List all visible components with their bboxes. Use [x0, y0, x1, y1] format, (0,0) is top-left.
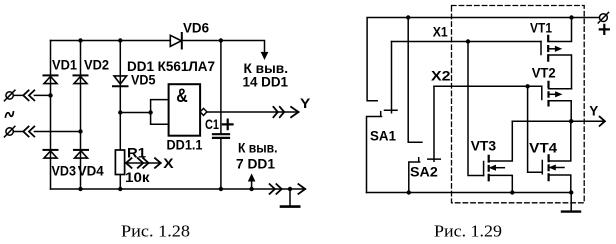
node dot input2/rail2: [78, 129, 82, 133]
svg-text:VD1: VD1: [52, 57, 77, 73]
svg-text:X2: X2: [431, 68, 451, 84]
switch SA1 bottom contact: [367, 112, 382, 193]
node dot SA2 branch/top rail: [406, 15, 410, 19]
svg-text:Рис. 1.29: Рис. 1.29: [434, 222, 502, 241]
top rail wire (+ supply): [367, 18, 599, 101]
transistor VT4: [528, 86, 571, 192]
diode VD2: [74, 75, 88, 83]
gate inversion diamond: [200, 108, 207, 115]
diode VD5: [113, 76, 128, 86]
node dot X1 branch: [466, 39, 470, 43]
ground left circuit: [289, 189, 291, 205]
svg-text:X1: X1: [433, 24, 448, 40]
gate input stubs and bracket: [120, 100, 168, 125]
svg-text:DD1.1: DD1.1: [167, 137, 203, 153]
node dot Y/VT junction: [569, 119, 573, 123]
svg-text:DD1 К561ЛА7: DD1 К561ЛА7: [127, 58, 215, 74]
arrowhead Y right: [600, 117, 605, 126]
node dot VT1 drain/top rail: [569, 15, 573, 19]
switch SA1 blade from X1: [385, 42, 398, 113]
wire Y output right: [512, 120, 605, 122]
wire rail 3: [119, 41, 121, 190]
svg-text:VT4: VT4: [529, 140, 557, 156]
bottom rail wire: [51, 188, 306, 190]
resistor R1: [115, 150, 124, 175]
transistor VT2: [542, 81, 572, 121]
chevrons + arrow bottom rail: [270, 184, 306, 194]
arrow up to pin 7: [251, 181, 253, 189]
svg-text:VD4: VD4: [78, 163, 104, 179]
plus sign C1: [223, 120, 233, 130]
chevrons + arrow Y output: [273, 107, 298, 117]
bottom rail right circuit: [367, 192, 572, 194]
node dot C1 branch/top: [219, 38, 223, 42]
wire Y output: [207, 111, 299, 113]
wire input 1 to rail 1: [14, 94, 51, 96]
svg-text:VT1: VT1: [530, 20, 552, 36]
top rail wire: [51, 41, 265, 54]
wire X1: [392, 41, 542, 43]
svg-text:VT2: VT2: [532, 65, 556, 81]
svg-text:VD2: VD2: [84, 57, 109, 73]
diode VD4: [74, 150, 88, 158]
dashed chip boundary box: [452, 6, 585, 203]
capacitor C1 plates: [213, 133, 229, 135]
svg-text:X: X: [163, 155, 174, 171]
wire X2: [434, 85, 542, 87]
svg-text:К выв.: К выв.: [238, 140, 278, 156]
wire input 2 to rail 2: [14, 131, 81, 133]
node dots bottom rail right: [407, 190, 411, 194]
+ supply terminal: [600, 14, 608, 22]
X tap arrow of R1: [126, 162, 161, 164]
svg-text:7 DD1: 7 DD1: [236, 156, 275, 172]
svg-text:VD3: VD3: [52, 163, 77, 179]
wire rail 2: [80, 41, 82, 190]
svg-text:VD6: VD6: [183, 20, 209, 36]
svg-text:VT3: VT3: [471, 138, 497, 154]
transistor VT1: [541, 18, 572, 89]
input terminal 2 (bottom AC input): [6, 128, 13, 135]
chevron break marks input 1: [23, 90, 34, 100]
node dot rail2/top: [78, 38, 82, 42]
input terminal 1 (top AC input): [6, 92, 13, 99]
capacitor C1 branch wire: [220, 41, 222, 190]
diode VD6: [170, 33, 182, 49]
node dot X2 branch: [525, 84, 529, 88]
wire rail 1: [50, 41, 52, 190]
node dot gate input bracket: [148, 110, 152, 114]
svg-text:Y: Y: [589, 103, 599, 119]
switch SA2 bottom contact: [409, 158, 420, 193]
plus sign supply: [600, 25, 609, 34]
arrow down to pin 14: [261, 52, 267, 58]
node dot rail3/top: [118, 38, 122, 42]
transistor VT3: [468, 42, 512, 193]
diode VD3: [44, 150, 58, 158]
diode VD1: [44, 75, 58, 83]
svg-text:SA2: SA2: [410, 164, 438, 180]
node dots bottom rail: [78, 187, 82, 191]
chevron break marks input 2: [23, 127, 34, 137]
node dot input1/rail1: [48, 93, 52, 97]
switch SA2 blade from X2: [428, 86, 441, 161]
svg-text:Y: Y: [300, 95, 311, 111]
svg-text:VD5: VD5: [131, 72, 156, 88]
svg-text:SA1: SA1: [370, 128, 396, 144]
svg-text:C1: C1: [205, 116, 219, 132]
op-amp gate DD1.1 box: [169, 84, 201, 136]
ground right circuit: [570, 193, 572, 211]
svg-text:&: &: [176, 86, 188, 107]
svg-text:14 DD1: 14 DD1: [243, 74, 289, 90]
~ AC symbol: [6, 112, 14, 117]
switch SA2 top contact: [408, 18, 422, 143]
svg-text:R1: R1: [127, 145, 146, 161]
svg-text:10к: 10к: [125, 169, 151, 185]
svg-text:Рис. 1.28: Рис. 1.28: [121, 222, 190, 241]
node dot rail3/gate feed: [118, 110, 122, 114]
